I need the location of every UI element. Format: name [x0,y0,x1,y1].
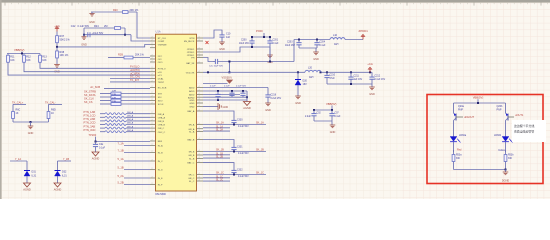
svg-text:DM_A: DM_A [127,129,134,132]
svg-text:0.1uF: 0.1uF [273,43,279,45]
svg-text:4: 4 [199,93,200,95]
svg-text:10K: 10K [42,59,47,62]
wire pdd link [269,47,271,62]
svg-text:4: 4 [199,173,200,175]
wire vbb rails [314,109,332,111]
wire SL_1B [203,154,230,156]
ground C22 [83,35,85,37]
svg-text:2: 2 [152,70,153,72]
annotation red box [427,95,543,184]
svg-text:SK_CS: SK_CS [84,100,93,104]
svg-text:0.1uF: 0.1uF [99,147,106,150]
svg-text:R24: R24 [94,25,99,28]
svg-text:CHA_A: CHA_A [158,116,166,119]
svg-text:IN_F: IN_F [158,185,163,187]
wire row45 link [246,91,248,100]
svg-text:2: 2 [152,86,153,88]
svg-text:P/DD: P/DD [256,29,263,33]
capacitor C2f [95,142,97,145]
svg-text:GND: GND [369,93,375,96]
svg-text:SK_1B: SK_1B [216,148,224,151]
wire c22 right vert [124,28,126,35]
svg-text:DIR_B: DIR_B [158,121,165,123]
wire pdd1 top rail [294,39,330,41]
wire avdd row5 [203,99,247,101]
svg-text:GR_C: GR_C [188,178,194,180]
diode D20 [297,72,299,79]
svg-text:4: 4 [199,40,200,42]
wire pin83 jog [203,83,228,85]
no connect x [206,41,209,44]
svg-text:GND: GND [28,132,34,135]
svg-text:GND: GND [330,131,336,134]
wire SL_1C [203,177,230,179]
wire box top rail [454,102,506,104]
capacitor C214 [217,91,219,94]
svg-text:DM_A: DM_A [127,118,134,121]
svg-text:SK_DATA: SK_DATA [84,93,96,97]
svg-text:4: 4 [199,102,200,104]
svg-text:SR_C: SR_C [188,175,194,177]
svg-text:A/DD: A/DD [189,87,195,90]
wire q2 down [505,121,507,137]
svg-text:SL_1C: SL_1C [216,176,223,178]
junction pullups [21,53,23,55]
resistor R6C [12,108,14,112]
ground agnd tp [92,152,99,156]
svg-text:SDI: SDI [158,97,162,99]
svg-text:0.1uF: 0.1uF [210,86,216,88]
wire SL_2B [203,157,230,159]
svg-text:EN_BUCK: EN_BUCK [184,41,195,43]
svg-text:4: 4 [199,110,200,112]
svg-text:IN_A: IN_A [158,145,163,148]
svg-text:STE: STE [158,94,163,96]
svg-text:DIR_C: DIR_C [158,128,165,130]
svg-text:PTN_1CD: PTN_1CD [84,114,96,118]
LED D30b [505,135,507,138]
wire PV/SLO [40,64,150,68]
svg-text:PTN_1AB: PTN_1AB [84,110,96,114]
wire DC_CAL [110,78,150,80]
pins U1 left [150,38,156,185]
svg-text:TK_CAL-: TK_CAL- [45,100,56,104]
wire SL_2A [203,130,230,132]
svg-text:20K 1%: 20K 1% [130,9,140,12]
svg-text:GND: GND [81,44,87,47]
svg-text:4: 4 [199,62,200,64]
resistor R2B [108,57,124,59]
svg-text:C211: C211 [354,75,360,77]
svg-text:2: 2 [152,74,153,76]
resistor R12 [23,54,25,56]
wire WTN to C10 [203,30,222,38]
svg-text:C218: C218 [271,94,277,96]
svg-text:REF: REF [158,141,163,143]
svg-text:VBB(5V): VBB(5V) [14,48,25,52]
capacitor C201 [269,37,271,41]
wire EX_SCB [104,88,150,90]
svg-text:4: 4 [199,154,200,156]
wire avdd row1 [203,87,268,89]
power +CA [55,27,58,32]
svg-text:C203: C203 [287,41,293,43]
svg-text:A/DD: A/DD [189,94,195,97]
svg-text:2: 2 [152,92,153,94]
svg-text:Red: Red [457,149,462,152]
pin names left [158,38,167,187]
wire to COMP pin [131,35,150,41]
svg-text:0.1uF 50V: 0.1uF 50V [78,25,90,28]
svg-text:这边留个平分线,: 这边留个平分线, [514,123,535,128]
capacitor C215 [231,91,233,93]
svg-text:IL31: IL31 [62,174,67,177]
svg-text:2: 2 [152,168,153,170]
svg-text:SK_1C: SK_1C [256,171,264,174]
svg-text:GND: GND [223,106,229,109]
svg-text:2: 2 [152,123,153,125]
svg-text:uC1(RX): uC1(RX) [130,71,140,75]
svg-text:BAT_B: BAT_B [188,139,195,142]
svg-text:C02: C02 [317,112,322,114]
ground pdd1 [315,48,317,52]
wire VSENSE rail [57,45,150,47]
svg-text:GND: GND [265,109,271,112]
wire divider bottom [13,121,49,123]
svg-text:C210: C210 [330,74,336,76]
svg-text:4: 4 [199,150,200,152]
svg-text:SL_C: SL_C [189,181,195,183]
svg-text:SL_2C: SL_2C [216,180,223,182]
svg-text:GND: GND [189,107,194,109]
resistor R53b [505,150,507,155]
svg-text:CHC_C: CHC_C [158,132,166,134]
svg-text:2: 2 [152,58,153,60]
svg-text:C07: C07 [335,112,340,114]
svg-text:LD30a: LD30a [459,134,467,137]
capacitor snub [213,61,215,63]
svg-text:DCAL: DCAL [158,78,165,81]
svg-text:2: 2 [152,77,153,79]
svg-text:JP/DD1: JP/DD1 [358,29,368,33]
resistor R38 [56,47,58,51]
svg-text:0.1uF 16V: 0.1uF 16V [375,79,386,81]
svg-text:L20: L20 [308,67,313,70]
svg-text:AGND: AGND [188,96,195,99]
svg-text:R20: R20 [113,9,118,12]
svg-text:WTN: WTN [189,38,194,40]
svg-text:7_1A: 7_1A [118,141,124,145]
svg-text:4: 4 [199,56,200,58]
svg-text:SK_STRB: SK_STRB [84,90,96,94]
wire SK_1B [203,151,266,153]
svg-text:1K: 1K [16,112,19,115]
svg-text:2: 2 [152,119,153,121]
svg-text:22R: 22R [112,98,116,100]
ground R38 [56,62,58,64]
ground for R20 [89,14,94,17]
svg-text:TK_INT: TK_INT [130,78,139,82]
capacitor C33A [233,119,235,120]
svg-text:C201: C201 [273,39,279,41]
svg-text:JP/DD1: JP/DD1 [187,52,195,54]
svg-text:RT_CLK: RT_CLK [158,38,167,40]
svg-text:U1A: U1A [156,30,161,34]
svg-text:0.1uF: 0.1uF [224,86,230,88]
svg-text:2: 2 [152,99,153,101]
wire PH jog [203,58,213,62]
svg-text:VDD_9K: VDD_9K [186,72,195,74]
svg-text:2: 2 [152,80,153,82]
svg-text:2: 2 [152,96,153,98]
svg-text:L10: L10 [333,34,338,37]
svg-text:AGND: AGND [92,156,100,160]
svg-text:2.2uF 25V: 2.2uF 25V [271,98,282,100]
resistor R53a [453,150,455,155]
capacitor C216 [242,91,244,93]
svg-text:4: 4 [199,37,200,39]
capacitor C200 [251,37,253,41]
junctions pdd [251,36,253,38]
wire R20 net [91,11,137,13]
ground D20 [295,96,301,99]
capacitor C204 [316,40,318,43]
svg-text:uC0(TX): uC0(TX) [130,68,140,72]
wire avdd row2 [203,90,247,92]
op-amp U1 body [156,34,197,191]
svg-text:2: 2 [152,127,153,129]
svg-text:JP/DD1: JP/DD1 [187,49,195,51]
svg-text:2: 2 [152,103,153,105]
svg-text:22R: 22R [112,101,116,103]
svg-text:GND: GND [295,102,301,105]
svg-text:C2s 10uF 50V: C2s 10uF 50V [209,65,224,67]
svg-text:10K 1%: 10K 1% [60,54,70,57]
svg-text:SK_1B: SK_1B [256,148,264,151]
svg-text:CHB_B: CHB_B [158,125,166,127]
svg-text:PH: PH [191,58,194,60]
svg-text:R53a: R53a [456,154,462,156]
ground rail [371,84,373,87]
ground divider [30,122,32,126]
capacitor C212 [371,72,373,77]
svg-text:5_2B: 5_2B [118,180,124,184]
LED D30a [453,135,455,138]
pin names right [184,38,195,183]
svg-text:DM_A: DM_A [127,125,134,128]
svg-text:GR_B: GR_B [188,155,194,157]
note box [512,120,546,142]
wire uC0TX [24,64,150,72]
capacitor C07 [331,110,333,114]
wire SK_1A [203,124,266,126]
capacitor C02 [313,110,315,114]
svg-text:IN_C: IN_C [158,161,163,163]
ground agnd d1 [24,183,31,187]
wire q2 base [508,116,514,118]
wire vbb bottom [314,120,332,122]
svg-text:SK_1A: SK_1A [256,121,264,124]
ground DGND [503,172,509,175]
svg-text:2: 2 [152,43,153,45]
svg-text:5_2A: 5_2A [118,174,124,178]
svg-text:2: 2 [152,55,153,57]
ground agnd d2 [54,183,61,187]
wire JPDD to caps [203,47,270,52]
svg-text:C330: C330 [237,119,243,121]
wire q1 down [453,121,455,137]
svg-text:GND: GND [189,103,194,105]
capacitor C33C [233,169,235,170]
wire SL_1A [203,127,230,129]
svg-text:2: 2 [152,61,153,63]
resistor R11 [7,54,9,56]
wire c22 left vert [83,28,85,35]
svg-text:PTN_2CD: PTN_2CD [84,121,96,125]
svg-text:20K 1%: 20K 1% [135,54,145,57]
svg-text:uOUT1: uOUT1 [515,113,524,117]
svg-text:PY/SLO: PY/SLO [158,68,166,70]
wire BAT_C [203,163,234,169]
svg-text:+CA: +CA [54,24,60,28]
svg-text:uFAOUT: uFAOUT [464,115,475,119]
svg-text:TK_CAL+: TK_CAL+ [12,100,24,104]
svg-text:C22: C22 [71,25,76,28]
svg-text:SK_CLK: SK_CLK [84,97,94,101]
svg-text:DM-5300: DM-5300 [156,193,167,196]
inductor L20 [305,70,321,72]
svg-text:VSS(5V): VSS(5V) [222,75,232,79]
resistor R24 [115,27,121,30]
svg-text:Yellow: Yellow [498,149,505,152]
transistor Q2 [506,113,509,116]
diode D31 [26,161,28,171]
svg-text:0.1uF: 0.1uF [335,116,341,118]
wire SL_2C [203,180,230,182]
wire q2 top [505,103,507,113]
svg-text:CKI: CKI [158,59,162,61]
power +CA main [368,67,371,72]
pins U1 right [197,38,204,181]
svg-text:SR_A: SR_A [189,124,195,127]
svg-text:PNP: PNP [458,108,463,111]
capacitor C33B [233,146,235,147]
capacitor C211 [350,72,352,77]
svg-text:R2B: R2B [118,54,123,57]
wire L10 out [345,39,363,41]
svg-text:SL_2B: SL_2B [216,157,223,159]
svg-text:PTN_3AB: PTN_3AB [84,124,96,128]
capacitor C210 [326,72,328,75]
svg-text:+10uF 50V: +10uF 50V [92,32,104,35]
svg-text:IN_D: IN_D [158,170,163,172]
svg-text:1uF 16V: 1uF 16V [354,79,363,81]
svg-text:1uF: 1uF [226,36,231,39]
svg-text:0.1uF 50V: 0.1uF 50V [238,126,249,128]
svg-text:5_1B: 5_1B [118,165,124,169]
svg-text:7_1B: 7_1B [118,148,124,152]
svg-text:4: 4 [199,48,200,50]
svg-text:16V: 16V [303,83,308,86]
wire BAT_A [203,111,234,119]
svg-text:IN_E: IN_E [158,178,163,180]
capacitor C2x inline [87,32,89,37]
wire REF row [96,141,151,143]
svg-text:0.1uF 50V: 0.1uF 50V [238,153,249,155]
svg-text:0.1uF 50V: 0.1uF 50V [238,176,249,178]
svg-text:R53b: R53b [508,154,514,156]
svg-text:SDO: SDO [158,101,163,103]
svg-text:A/DD: A/DD [189,90,195,93]
svg-text:DC_CAL: DC_CAL [130,75,141,79]
wire avdd row3 [203,94,240,96]
resistor R20 [123,11,129,14]
svg-text:AGND: AGND [23,187,31,191]
svg-text:2: 2 [152,40,153,42]
wire BAT_B [203,140,234,147]
ground pdd [269,47,271,55]
svg-text:C200: C200 [241,39,247,41]
svg-text:IN_B: IN_B [158,153,163,155]
svg-text:4: 4 [199,123,200,125]
svg-text:D32: D32 [62,171,67,174]
svg-text:DGND: DGND [502,180,510,183]
svg-text:2: 2 [152,116,153,118]
svg-text:10uF 16V: 10uF 16V [239,43,249,45]
svg-text:IL31: IL31 [32,174,37,177]
wire pdd top rail [252,36,270,38]
svg-text:BAT_9K: BAT_9K [186,62,195,65]
svg-text:C204: C204 [320,41,326,43]
svg-text:5_1A: 5_1A [118,157,124,161]
inductor L10 [330,38,345,40]
wire avdd row4 [203,96,247,98]
transistor Q1 [454,113,457,116]
svg-text:2: 2 [152,140,153,142]
svg-text:GND: GND [219,48,225,51]
svg-text:D31: D31 [32,171,37,174]
svg-text:VSENSE: VSENSE [158,45,167,47]
svg-text:SL_1A: SL_1A [216,125,223,128]
diode D32 [57,161,59,171]
wire rail1 [84,27,125,29]
svg-text:PNP: PNP [497,108,502,111]
svg-text:22R: 22R [112,94,116,96]
svg-text:2: 2 [152,151,153,153]
svg-text:GND: GND [89,21,95,24]
svg-text:DM_A: DM_A [127,115,134,118]
wire R20 to RT_CLK [137,12,150,38]
svg-text:4: 4 [199,99,200,101]
svg-text:0uH: 0uH [309,76,314,79]
svg-text:C332: C332 [237,169,243,171]
wire main rail [203,71,305,73]
wire snub drop [228,62,230,73]
wire SK_1C [203,174,266,176]
svg-text:4: 4 [199,71,200,73]
ground vbb [331,121,333,125]
svg-text:SK_1C: SK_1C [216,171,224,174]
svg-text:1K: 1K [51,112,54,115]
wire uC1RX [8,64,150,75]
svg-text:4: 4 [199,51,200,53]
svg-text:uC_SCB: uC_SCB [90,85,100,89]
svg-text:PTN_3CD: PTN_3CD [84,128,96,132]
svg-text:2M: 2M [104,25,107,28]
svg-text:SL_1B: SL_1B [216,153,223,155]
svg-text:22R: 22R [112,91,116,93]
svg-text:充着全陆迎管管: 充着全陆迎管管 [514,128,534,133]
